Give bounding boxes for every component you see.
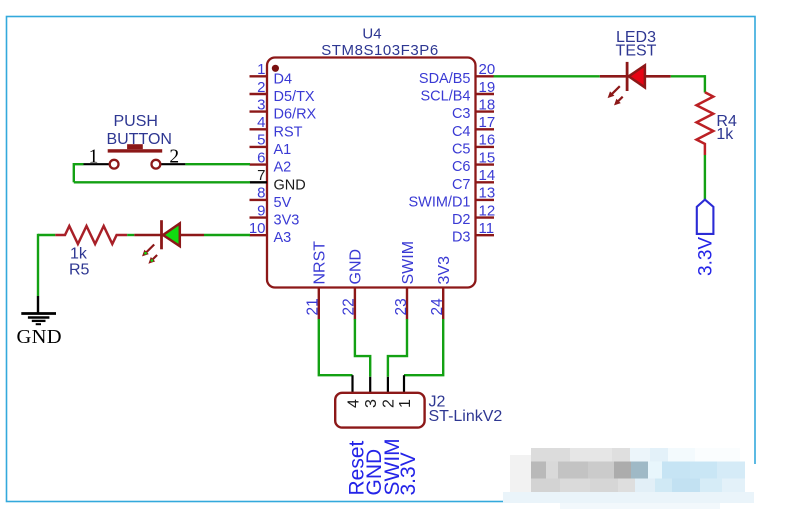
- pin 4 (RST): [250, 114, 303, 140]
- svg-text:24: 24: [429, 298, 446, 316]
- push button contact 1 label: [89, 147, 99, 168]
- pin 1 indicator dot: [272, 65, 279, 72]
- net label SWIM: [381, 438, 404, 495]
- svg-text:GND: GND: [274, 177, 306, 193]
- svg-text:A3: A3: [274, 230, 292, 246]
- svg-text:D5/TX: D5/TX: [274, 89, 315, 105]
- svg-text:5V: 5V: [274, 195, 292, 211]
- svg-text:A1: A1: [274, 142, 292, 158]
- wire R5 to LED: [127, 234, 134, 236]
- wire LED to IC pin 10: [204, 234, 250, 236]
- svg-text:RST: RST: [274, 124, 303, 140]
- connector J2 value ST-LinkV2: [429, 408, 503, 425]
- pin 3 (D6/RX): [250, 96, 317, 122]
- J2 pin 4 lead: [351, 375, 353, 393]
- pin 21 (NRST): [305, 241, 329, 320]
- pin 15 (C6): [452, 149, 495, 175]
- svg-text:D2: D2: [452, 212, 471, 228]
- svg-text:C6: C6: [452, 159, 471, 175]
- svg-text:1: 1: [397, 399, 414, 408]
- svg-text:SWIM: SWIM: [400, 241, 417, 285]
- supply net label 3.3V: [696, 237, 717, 276]
- svg-text:4: 4: [345, 399, 362, 408]
- svg-text:17: 17: [479, 114, 496, 131]
- wire button pin1 left: [74, 163, 84, 165]
- pin 13 (SWIM/D1): [408, 185, 495, 211]
- push button contact 2 label: [169, 147, 179, 168]
- pin 2 (D5/TX): [250, 79, 315, 105]
- wire IC pin 21 to J2 pin 4: [319, 319, 353, 375]
- pin 23 (SWIM): [393, 241, 417, 320]
- IC U4 reference label: [362, 25, 381, 42]
- wire to IC pin 7 GND: [74, 181, 250, 183]
- svg-text:23: 23: [393, 298, 410, 315]
- svg-text:6: 6: [257, 149, 265, 166]
- svg-text:U4: U4: [362, 25, 381, 42]
- svg-text:R5: R5: [69, 262, 90, 279]
- wire IC pin 24 to J2 pin 1: [404, 319, 443, 375]
- connector J2 name: [429, 393, 446, 410]
- pin 18 (C3): [452, 96, 495, 122]
- pin 6 (A2): [250, 149, 292, 175]
- net label Reset: [346, 440, 369, 495]
- svg-text:7: 7: [257, 167, 265, 184]
- net label 3.3V: [397, 452, 420, 495]
- svg-text:PUSH: PUSH: [114, 113, 158, 130]
- pin 12 (D2): [452, 202, 495, 228]
- svg-text:SWIM/D1: SWIM/D1: [408, 194, 470, 210]
- supply symbol 3.3V: [697, 200, 714, 234]
- svg-text:ST-LinkV2: ST-LinkV2: [429, 408, 503, 425]
- svg-text:STM8S103F3P6: STM8S103F3P6: [321, 42, 439, 59]
- svg-text:C5: C5: [452, 141, 471, 157]
- wire button pin2 to IC pin 6: [185, 163, 250, 165]
- svg-text:2: 2: [257, 79, 265, 96]
- svg-text:8: 8: [257, 185, 265, 202]
- wire LED3 to corner: [671, 75, 705, 92]
- wire R4 to 3.3V supply: [704, 155, 706, 199]
- svg-text:10: 10: [249, 220, 266, 237]
- svg-text:C7: C7: [452, 177, 471, 193]
- pin 7 (GND): [250, 167, 306, 193]
- svg-text:D6/RX: D6/RX: [274, 107, 317, 123]
- J2 pin number 1: [397, 399, 414, 408]
- pin 11 (D3): [452, 220, 494, 246]
- svg-text:TEST: TEST: [616, 42, 657, 59]
- svg-text:A2: A2: [274, 160, 292, 176]
- connector J2 body: [335, 393, 424, 428]
- svg-text:GND: GND: [348, 249, 365, 285]
- LED D5 emission arrows: [142, 245, 157, 264]
- svg-text:12: 12: [479, 202, 496, 219]
- pin 22 (GND): [341, 249, 365, 320]
- J2 pin number 2: [381, 399, 398, 408]
- LED3 emission arrows: [608, 86, 623, 105]
- svg-text:11: 11: [479, 220, 495, 237]
- wire GND riser to resistor R5: [38, 234, 55, 296]
- J2 pin number 4: [345, 399, 362, 408]
- svg-text:D4: D4: [274, 71, 293, 87]
- watermark blur mosaic: [503, 441, 762, 509]
- svg-text:1: 1: [89, 147, 99, 168]
- svg-text:3.3V: 3.3V: [397, 452, 420, 495]
- svg-text:19: 19: [479, 79, 496, 96]
- svg-text:4: 4: [257, 114, 265, 131]
- svg-text:1k: 1k: [70, 245, 88, 262]
- svg-text:NRST: NRST: [312, 241, 329, 285]
- J2 pin 2 lead: [387, 377, 389, 394]
- svg-text:1k: 1k: [716, 126, 734, 143]
- resistor R4 name: [716, 113, 737, 130]
- resistor R5 value 1k: [70, 245, 88, 262]
- svg-text:3.3V: 3.3V: [696, 237, 717, 276]
- LED3 red: [600, 62, 671, 91]
- svg-text:15: 15: [479, 149, 496, 166]
- svg-text:3V3: 3V3: [436, 256, 453, 285]
- J2 pin 1 lead: [403, 375, 405, 393]
- svg-text:13: 13: [479, 185, 496, 202]
- J2 pin number 3: [363, 399, 380, 408]
- pin 1 (D4): [250, 61, 293, 87]
- pin 5 (A1): [250, 132, 292, 158]
- wire IC pin 22 to J2 pin 3: [355, 319, 370, 377]
- pin 8 (5V): [250, 185, 292, 211]
- LED3 name label: [616, 29, 656, 46]
- wire IC pin 20 to LED3: [494, 75, 600, 77]
- pin 17 (C4): [452, 114, 495, 140]
- svg-text:1: 1: [257, 61, 265, 78]
- svg-text:C3: C3: [452, 106, 471, 122]
- svg-text:3: 3: [363, 399, 380, 408]
- net label GND: [363, 449, 386, 496]
- svg-text:18: 18: [479, 96, 496, 113]
- resistor R5: [55, 226, 127, 244]
- wire IC pin 23 to J2 pin 2: [388, 319, 407, 377]
- IC U4 value label STM8S103F3P6: [321, 42, 439, 59]
- svg-text:3: 3: [257, 96, 265, 113]
- resistor R4 value 1k: [716, 126, 734, 143]
- svg-text:14: 14: [479, 167, 496, 184]
- pin 19 (SCL/B4): [421, 79, 496, 105]
- svg-text:GND: GND: [17, 326, 62, 348]
- J2 pin 3 lead: [369, 377, 371, 394]
- pin 16 (C5): [452, 132, 495, 158]
- svg-text:16: 16: [479, 132, 496, 149]
- resistor R4: [697, 92, 714, 155]
- LED D5 green: [134, 220, 204, 249]
- push button S1 label: [107, 113, 172, 148]
- pin 14 (C7): [452, 167, 495, 193]
- wire vertical left of button: [73, 163, 75, 182]
- LED3 net label TEST: [616, 42, 657, 59]
- svg-text:21: 21: [305, 298, 322, 315]
- svg-text:2: 2: [169, 147, 179, 168]
- svg-text:9: 9: [257, 202, 265, 219]
- svg-text:D3: D3: [452, 230, 471, 246]
- svg-text:SDA/B5: SDA/B5: [419, 71, 471, 87]
- svg-text:2: 2: [381, 399, 398, 408]
- svg-text:3V3: 3V3: [274, 213, 300, 229]
- resistor R5 name: [69, 262, 90, 279]
- svg-text:SCL/B4: SCL/B4: [421, 89, 471, 105]
- pin 10 (A3): [249, 220, 291, 246]
- pin 24 (3V3): [429, 256, 453, 320]
- push button S1 symbol: [84, 144, 186, 168]
- svg-text:5: 5: [257, 132, 265, 149]
- svg-text:22: 22: [341, 298, 358, 315]
- pin 20 (SDA/B5): [419, 61, 495, 87]
- pin 9 (3V3): [250, 202, 300, 228]
- svg-text:C4: C4: [452, 124, 471, 140]
- ground GND symbol: [17, 296, 62, 348]
- IC U4 body: [267, 58, 476, 288]
- svg-text:20: 20: [479, 61, 496, 78]
